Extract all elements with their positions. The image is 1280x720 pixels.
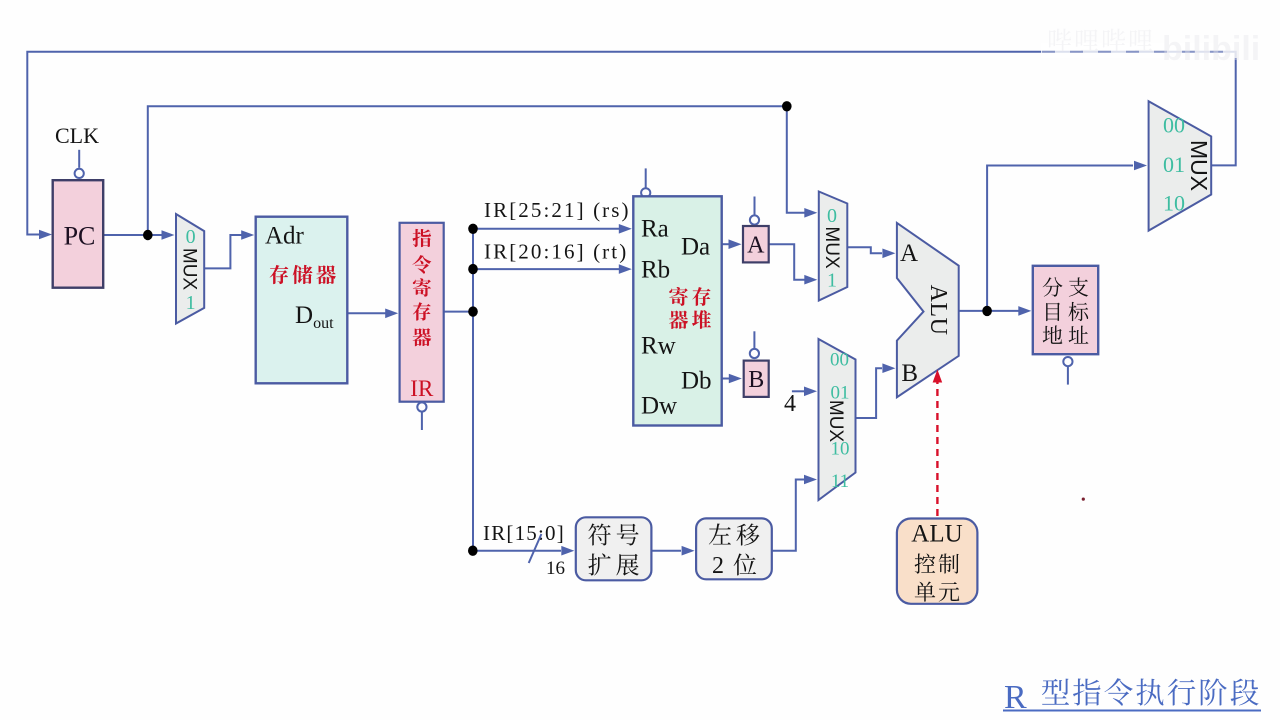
svg-text:4: 4 xyxy=(784,391,796,417)
junction node on PC bus xyxy=(782,101,792,111)
wire IR[15:0] to sign extend xyxy=(473,550,561,552)
register PC xyxy=(53,180,103,288)
wire Da to register A xyxy=(722,243,729,245)
svg-text:PC: PC xyxy=(64,222,96,251)
shift left 2 box 左移2位 xyxy=(696,518,772,579)
mux MUX3 (ALU B operand select) xyxy=(819,339,856,500)
svg-text:IR[20:16] (rt): IR[20:16] (rt) xyxy=(484,240,628,264)
wire sign extend to shift left xyxy=(651,550,681,552)
bus width slash xyxy=(529,534,542,563)
junction IR output node xyxy=(468,306,478,316)
svg-text:A: A xyxy=(900,240,918,267)
junction IR bus rt tap xyxy=(468,264,478,274)
svg-text:00: 00 xyxy=(1163,113,1185,138)
wire IR[25:21] to Ra xyxy=(473,228,619,230)
svg-text:Db: Db xyxy=(681,368,712,395)
memory 存储器 xyxy=(256,217,348,384)
svg-text:ALU: ALU xyxy=(925,285,951,336)
stray red dot xyxy=(1082,498,1085,501)
stub below branch target xyxy=(1067,367,1069,385)
ALU control dashed arrow xyxy=(936,380,938,516)
mux MUX2 (ALU A operand select) xyxy=(819,192,848,301)
ALU control unit 控制单元 xyxy=(897,519,978,604)
svg-text:ALU: ALU xyxy=(911,521,962,548)
wire PC value to MUX2 input 0 xyxy=(148,106,805,235)
clock stub into register file xyxy=(645,168,647,188)
wire IR output to bus node xyxy=(444,311,473,313)
wire ALU output to branch target xyxy=(959,310,1019,312)
svg-text:MUX: MUX xyxy=(179,248,200,291)
memory label 存储器 xyxy=(270,265,336,284)
svg-text:1: 1 xyxy=(827,270,837,292)
label 左移 xyxy=(709,523,760,545)
svg-text:Adr: Adr xyxy=(265,223,305,250)
svg-text:CLK: CLK xyxy=(55,123,99,148)
wire memory Dout to IR xyxy=(347,312,387,314)
svg-text:16: 16 xyxy=(546,558,565,579)
svg-text:A: A xyxy=(747,233,765,259)
svg-text:10: 10 xyxy=(831,439,850,460)
junction PC output node xyxy=(143,230,153,240)
ALU xyxy=(897,223,959,397)
svg-text:0: 0 xyxy=(827,205,837,227)
label 控制 xyxy=(915,553,959,573)
junction IR bus rs tap xyxy=(468,224,478,234)
label 符号 xyxy=(588,523,638,545)
clock stub into B xyxy=(753,331,755,348)
junction IR bus imm tap xyxy=(468,546,478,556)
svg-text:IR[25:21] (rs): IR[25:21] (rs) xyxy=(484,198,631,222)
mux MUX4 (next PC select) xyxy=(1149,101,1212,230)
wire MUX2 output to ALU A xyxy=(847,247,882,253)
clock stub below IR xyxy=(421,413,423,431)
label 寄存 xyxy=(669,287,710,306)
bilibili watermark xyxy=(1041,43,1237,58)
label 扩展 xyxy=(588,553,638,575)
svg-text:1: 1 xyxy=(186,292,196,314)
label 单元 xyxy=(915,581,960,601)
svg-text:MUX: MUX xyxy=(1186,140,1212,191)
svg-text:11: 11 xyxy=(831,471,849,492)
svg-text:MUX: MUX xyxy=(821,226,842,269)
svg-text:IR[15:0]: IR[15:0] xyxy=(483,521,565,545)
wire IR bus vertical xyxy=(472,229,474,551)
svg-text:Rw: Rw xyxy=(641,333,676,360)
sign extend box 符号扩展 xyxy=(576,517,652,580)
svg-text:10: 10 xyxy=(1163,191,1185,216)
label 地址 xyxy=(1043,325,1089,343)
svg-text:00: 00 xyxy=(830,350,849,371)
wire constant 4 to MUX3 input 01 xyxy=(792,390,804,392)
svg-text:Ra: Ra xyxy=(641,216,669,243)
junction ALU output node xyxy=(982,306,992,316)
clock stub into PC xyxy=(78,150,80,168)
label 分支 xyxy=(1043,277,1089,296)
wire IR[20:16] to Rb xyxy=(473,268,619,270)
label 器堆 xyxy=(669,310,711,329)
svg-text:bilibili: bilibili xyxy=(1162,30,1260,68)
wire MUX3 output to ALU B xyxy=(856,368,883,418)
label 位 xyxy=(734,553,757,575)
svg-text:Rb: Rb xyxy=(641,257,670,284)
wire shift left to MUX3 input 11 xyxy=(772,480,804,551)
wire MUX4 output feedback to PC input xyxy=(27,52,1235,235)
svg-text:Da: Da xyxy=(681,234,710,261)
wire ALU output to MUX4 input 01 xyxy=(987,166,1133,311)
caption CJK xyxy=(1042,678,1259,705)
instruction register IR 指令寄存器 xyxy=(400,223,444,402)
label 目标 xyxy=(1046,302,1088,321)
svg-text:Dw: Dw xyxy=(641,393,677,420)
branch target address box 分支目标地址 xyxy=(1033,266,1098,354)
mux MUX1 (PC address select) xyxy=(176,214,204,324)
svg-text:01: 01 xyxy=(1163,152,1185,177)
svg-text:2: 2 xyxy=(712,553,724,579)
wire PC output to MUX1 xyxy=(103,234,162,236)
wire Db to register B xyxy=(722,378,729,380)
svg-text:IR: IR xyxy=(410,376,434,401)
wire register A to MUX2 input 1 xyxy=(769,244,805,280)
clock stub into A xyxy=(754,197,756,215)
svg-text:0: 0 xyxy=(186,226,196,248)
svg-text:B: B xyxy=(901,360,918,387)
svg-text:B: B xyxy=(748,367,764,393)
svg-text:MUX: MUX xyxy=(825,400,846,443)
wire MUX1 output to memory Adr xyxy=(204,235,242,268)
